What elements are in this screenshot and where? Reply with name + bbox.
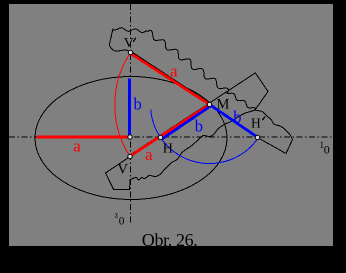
svg-text:b: b <box>233 107 241 126</box>
svg-text:0: 0 <box>324 142 330 156</box>
svg-text:b: b <box>195 117 203 136</box>
svg-text:a: a <box>73 136 81 155</box>
svg-text:a: a <box>145 145 153 164</box>
svg-text:Obr. 26.: Obr. 26. <box>142 230 198 250</box>
svg-text:M: M <box>217 96 230 112</box>
svg-text:0: 0 <box>119 216 125 228</box>
svg-text:b: b <box>134 94 142 113</box>
svg-text:H: H <box>251 115 261 130</box>
svg-text:H: H <box>163 142 173 157</box>
svg-text:V: V <box>117 162 128 178</box>
svg-text:V: V <box>124 36 134 51</box>
svg-text:a: a <box>170 62 178 81</box>
